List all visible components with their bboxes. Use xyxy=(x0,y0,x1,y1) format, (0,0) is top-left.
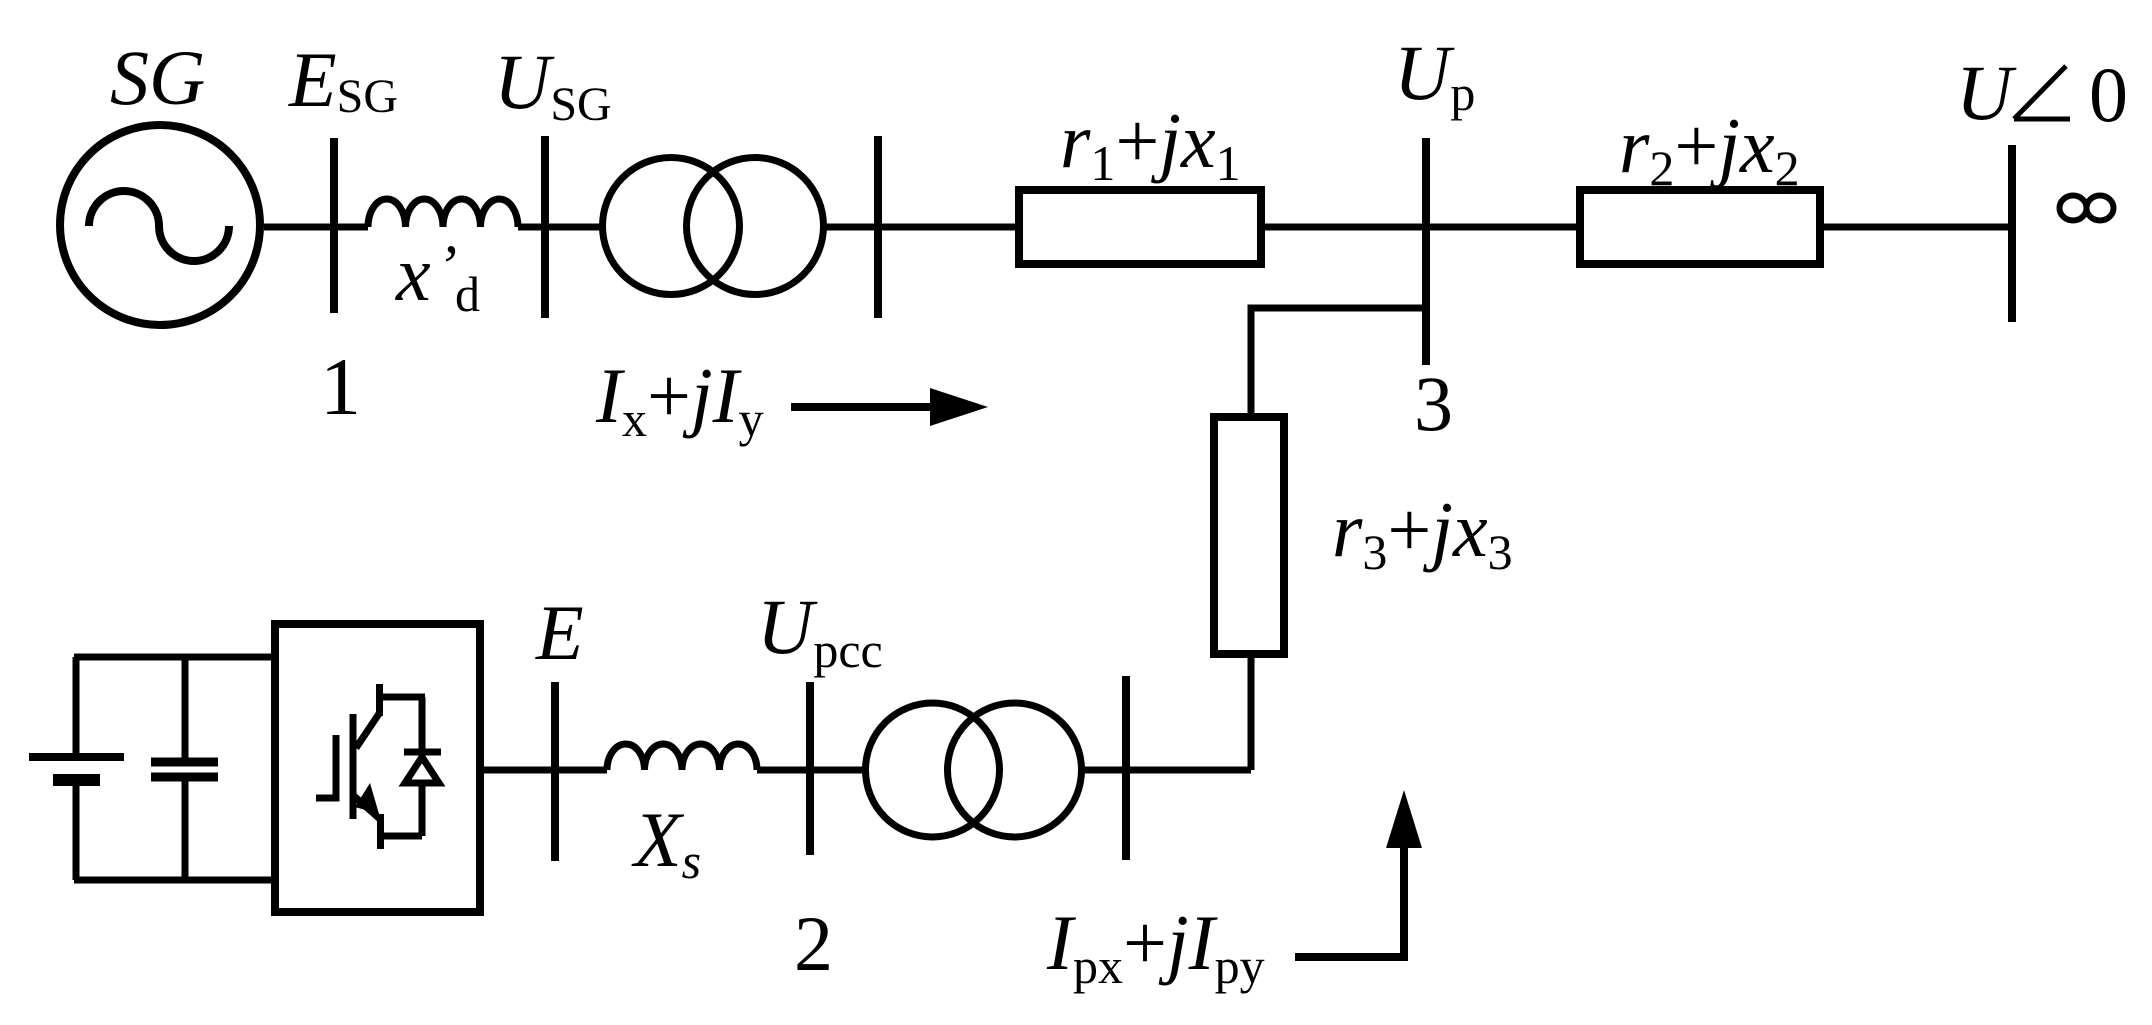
svg-text:2: 2 xyxy=(794,900,833,987)
svg-text:r2+jx2: r2+jx2 xyxy=(1619,102,1800,196)
svg-text:U: U xyxy=(1956,49,2017,136)
svg-text:Ix+jIy: Ix+jIy xyxy=(595,352,764,447)
svg-text:SG: SG xyxy=(110,34,205,121)
svg-text:E: E xyxy=(535,589,584,676)
svg-text:0: 0 xyxy=(2089,51,2128,138)
svg-text:1: 1 xyxy=(320,341,361,432)
svg-text:r3+jx3: r3+jx3 xyxy=(1332,486,1513,580)
svg-text:3: 3 xyxy=(1414,360,1453,447)
svg-text:r1+jx1: r1+jx1 xyxy=(1060,97,1241,191)
